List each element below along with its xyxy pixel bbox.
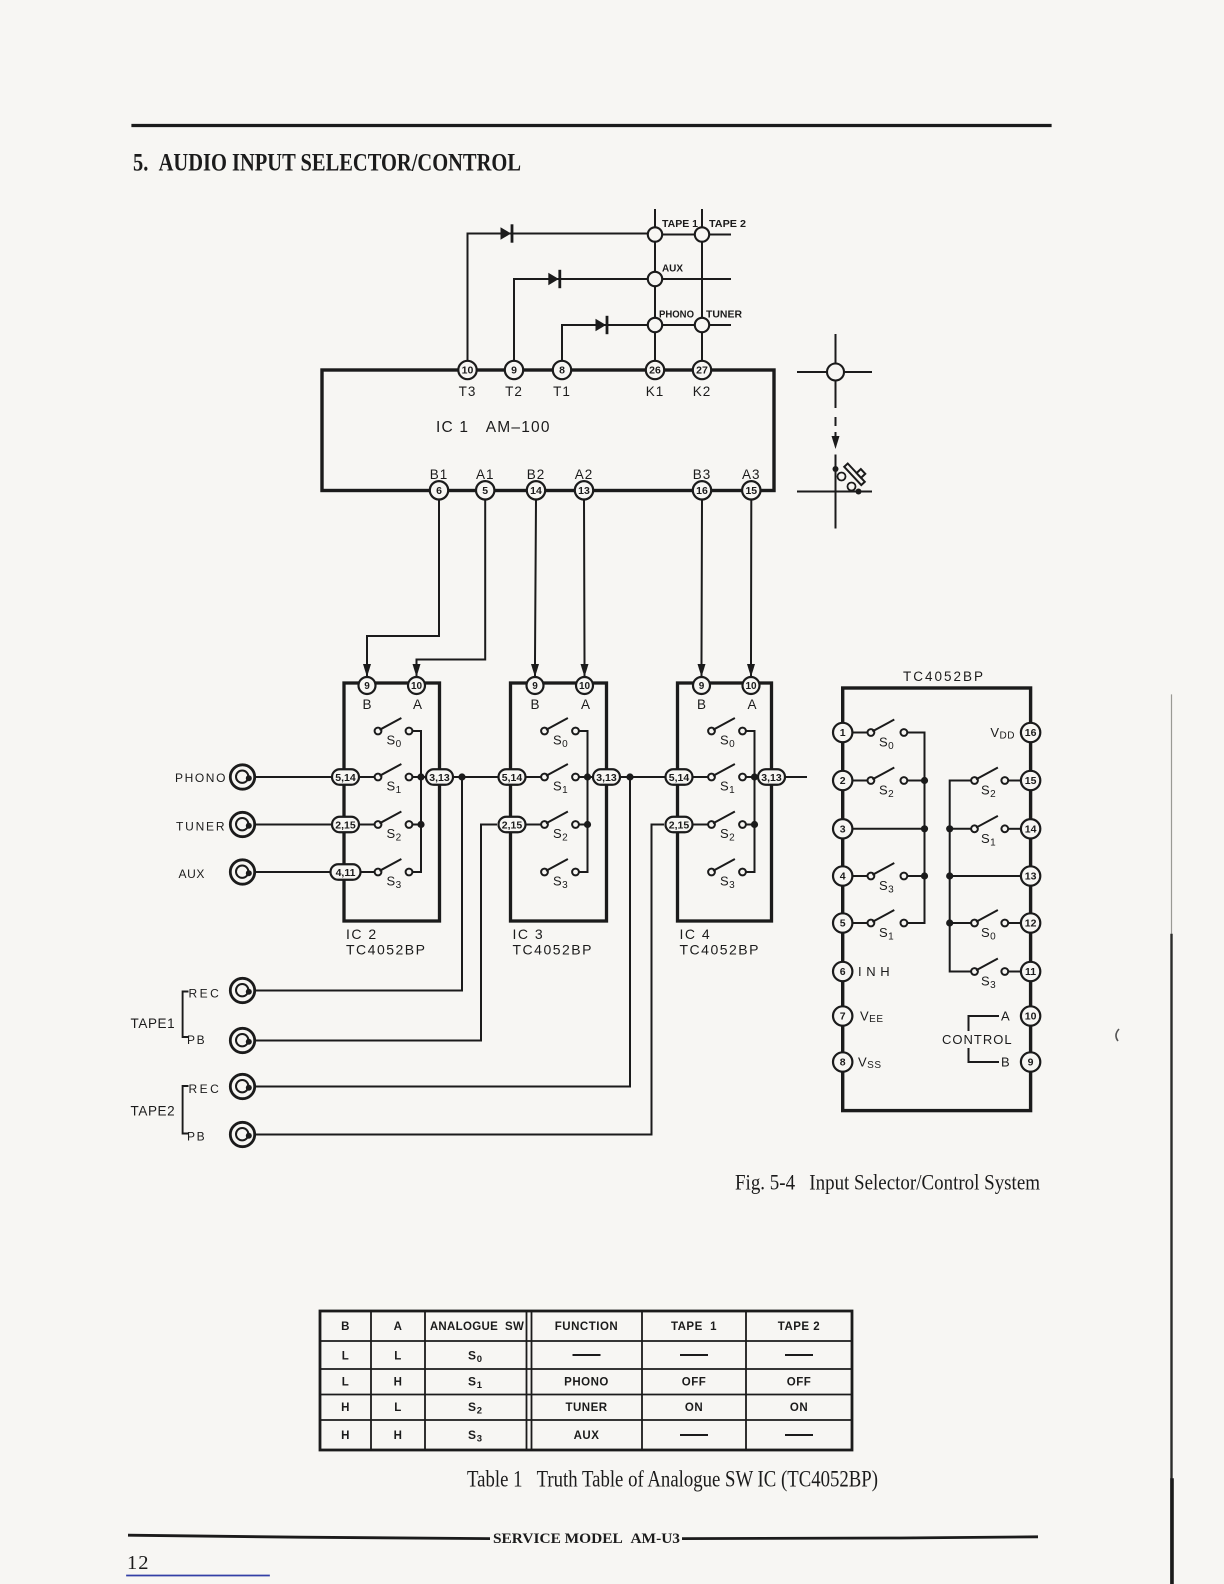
- svg-text:B1: B1: [430, 467, 449, 482]
- svg-text:3,13: 3,13: [761, 772, 782, 784]
- svg-text:TAPE2: TAPE2: [131, 1104, 176, 1119]
- svg-text:5. AUDIO INPUT SELECTOR/CONTR: 5. AUDIO INPUT SELECTOR/CONTROL: [133, 150, 521, 177]
- svg-text:16: 16: [696, 485, 708, 497]
- svg-text:ON: ON: [790, 1402, 808, 1414]
- svg-text:TC4052BP: TC4052BP: [903, 669, 985, 684]
- svg-text:A: A: [413, 697, 422, 712]
- svg-text:H: H: [394, 1377, 403, 1389]
- svg-text:TC4052BP: TC4052BP: [346, 942, 426, 958]
- svg-text:TAPE 1: TAPE 1: [671, 1321, 717, 1333]
- svg-text:T2: T2: [505, 384, 523, 399]
- svg-text:9: 9: [532, 681, 538, 692]
- svg-text:ANALOGUE SW: ANALOGUE SW: [430, 1321, 524, 1333]
- svg-text:13: 13: [1025, 871, 1037, 883]
- svg-text:B3: B3: [693, 467, 712, 482]
- svg-text:2,15: 2,15: [669, 819, 690, 831]
- svg-text:12: 12: [127, 1552, 150, 1574]
- svg-text:A3: A3: [742, 467, 761, 482]
- svg-text:ON: ON: [685, 1402, 703, 1414]
- svg-text:Fig. 5-4 Input Selector/Cont: Fig. 5-4 Input Selector/Control System: [735, 1170, 1040, 1195]
- svg-text:K1: K1: [646, 384, 665, 399]
- svg-text:9: 9: [511, 365, 517, 377]
- svg-text:AUX: AUX: [574, 1430, 600, 1442]
- svg-text:REC: REC: [189, 987, 222, 1001]
- svg-text:L: L: [394, 1351, 402, 1363]
- svg-text:14: 14: [530, 485, 542, 497]
- svg-text:4,11: 4,11: [336, 867, 356, 879]
- svg-text:A1: A1: [476, 467, 495, 482]
- svg-text:A: A: [581, 697, 590, 712]
- svg-text:5: 5: [482, 485, 488, 497]
- svg-text:B: B: [341, 1321, 350, 1333]
- svg-text:2,15: 2,15: [335, 819, 356, 831]
- svg-text:PHONO: PHONO: [659, 309, 694, 321]
- svg-text:11: 11: [1025, 966, 1036, 978]
- svg-text:15: 15: [745, 485, 757, 497]
- svg-text:9: 9: [364, 681, 370, 692]
- svg-text:9: 9: [699, 681, 705, 692]
- svg-text:T3: T3: [459, 384, 477, 399]
- svg-text:PB: PB: [187, 1130, 206, 1144]
- svg-text:12: 12: [1025, 918, 1037, 930]
- svg-text:10: 10: [462, 365, 474, 377]
- svg-text:CONTROL: CONTROL: [942, 1032, 1013, 1047]
- svg-text:B: B: [1001, 1055, 1010, 1070]
- svg-text:TAPE1: TAPE1: [131, 1016, 176, 1031]
- svg-text:6: 6: [840, 966, 846, 978]
- svg-text:16: 16: [1025, 727, 1037, 739]
- svg-text:T1: T1: [553, 384, 571, 399]
- svg-text:10: 10: [745, 681, 757, 692]
- svg-text:L: L: [342, 1351, 350, 1363]
- svg-text:A: A: [394, 1321, 403, 1333]
- svg-text:TC4052BP: TC4052BP: [513, 942, 593, 958]
- svg-text:PHONO: PHONO: [564, 1377, 609, 1389]
- svg-text:A2: A2: [575, 467, 594, 482]
- svg-text:B2: B2: [527, 467, 546, 482]
- svg-text:OFF: OFF: [787, 1377, 812, 1389]
- svg-text:26: 26: [649, 365, 661, 377]
- svg-text:4: 4: [840, 871, 846, 883]
- svg-text:15: 15: [1025, 775, 1037, 787]
- svg-text:5: 5: [840, 918, 846, 930]
- svg-text:8: 8: [559, 365, 565, 377]
- svg-text:H: H: [341, 1430, 350, 1442]
- svg-text:AUX: AUX: [179, 867, 205, 881]
- svg-text:10: 10: [579, 681, 591, 692]
- svg-text:TUNER: TUNER: [706, 309, 742, 321]
- svg-text:PB: PB: [187, 1033, 206, 1047]
- svg-text:Table 1 Truth Table of Analo: Table 1 Truth Table of Analogue SW IC (T…: [467, 1467, 878, 1492]
- svg-text:7: 7: [840, 1011, 846, 1023]
- svg-text:H: H: [341, 1402, 350, 1414]
- svg-text:13: 13: [578, 485, 590, 497]
- svg-text:SERVICE MODEL AM-U3: SERVICE MODEL AM-U3: [493, 1531, 680, 1547]
- svg-text:FUNCTION: FUNCTION: [555, 1321, 618, 1333]
- svg-text:IC 2: IC 2: [346, 926, 378, 942]
- svg-text:B: B: [697, 697, 706, 712]
- svg-text:8: 8: [840, 1057, 846, 1069]
- svg-text:9: 9: [1028, 1057, 1034, 1069]
- svg-text:PHONO: PHONO: [175, 771, 227, 785]
- svg-text:6: 6: [436, 485, 442, 497]
- svg-text:IC 4: IC 4: [680, 926, 712, 942]
- svg-text:TUNER: TUNER: [176, 820, 226, 834]
- svg-text:14: 14: [1025, 824, 1037, 836]
- svg-text:IC 1 AM–100: IC 1 AM–100: [436, 419, 551, 436]
- svg-text:REC: REC: [189, 1082, 222, 1096]
- svg-text:2,15: 2,15: [502, 819, 523, 831]
- svg-text:TC4052BP: TC4052BP: [680, 942, 760, 958]
- svg-text:AUX: AUX: [662, 263, 683, 275]
- svg-text:H: H: [394, 1430, 403, 1442]
- svg-text:L: L: [394, 1402, 402, 1414]
- svg-text:A: A: [1001, 1009, 1010, 1024]
- svg-text:K2: K2: [693, 384, 712, 399]
- svg-text:IC 3: IC 3: [513, 926, 545, 942]
- svg-text:I N H: I N H: [858, 964, 890, 979]
- svg-text:B: B: [362, 697, 371, 712]
- svg-text:5,14: 5,14: [335, 772, 356, 784]
- svg-text:1: 1: [840, 727, 846, 739]
- svg-text:5,14: 5,14: [669, 772, 690, 784]
- svg-text:3,13: 3,13: [429, 772, 450, 784]
- svg-text:3: 3: [840, 824, 846, 836]
- svg-text:10: 10: [411, 681, 423, 692]
- svg-text:L: L: [342, 1377, 350, 1389]
- svg-text:TAPE 2: TAPE 2: [709, 218, 746, 230]
- svg-text:2: 2: [840, 775, 846, 787]
- svg-text:B: B: [530, 697, 539, 712]
- svg-text:A: A: [747, 697, 756, 712]
- svg-text:5,14: 5,14: [502, 772, 523, 784]
- svg-text:TAPE 2: TAPE 2: [778, 1321, 820, 1333]
- svg-text:OFF: OFF: [682, 1377, 707, 1389]
- svg-text:TUNER: TUNER: [565, 1402, 607, 1414]
- svg-text:27: 27: [696, 365, 708, 377]
- svg-text:3,13: 3,13: [596, 772, 617, 784]
- svg-text:10: 10: [1025, 1011, 1037, 1023]
- svg-text:TAPE 1: TAPE 1: [662, 218, 698, 230]
